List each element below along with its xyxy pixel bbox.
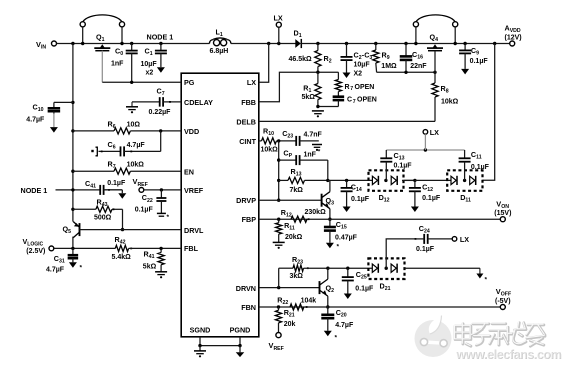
ground below C10 [50, 127, 58, 133]
svg-text:SGND: SGND [190, 326, 211, 335]
wire FBP line to VON [259, 218, 501, 220]
svg-text:6.8µH: 6.8µH [210, 48, 229, 55]
svg-text:10kΩ: 10kΩ [127, 162, 145, 169]
svg-text:FBB: FBB [241, 98, 256, 107]
svg-text:0.1µF: 0.1µF [351, 196, 370, 203]
resistor R13 [279, 179, 288, 181]
svg-text:LX: LX [247, 78, 256, 87]
wire charge pump collector row [328, 179, 373, 181]
svg-text:0.1µF: 0.1µF [416, 246, 435, 253]
capacitor C13 [385, 150, 387, 158]
svg-text:0.22µF: 0.22µF [149, 109, 172, 116]
svg-text:10µF: 10µF [354, 62, 371, 69]
capacitor C14 [346, 180, 348, 188]
wire FBN line to VOFF [259, 306, 501, 308]
svg-text:0.1µF: 0.1µF [471, 164, 490, 171]
wire left column vertical upper [72, 44, 74, 222]
wire FBB riser [259, 72, 339, 102]
terminal LX mid [423, 130, 428, 135]
capacitor C6 [99, 150, 121, 152]
IC U1 outline [181, 73, 259, 337]
wire NODE1 left line [56, 189, 101, 191]
ground PGND [239, 346, 241, 353]
capacitor C7 OPEN [337, 92, 339, 97]
svg-text:0.1µF: 0.1µF [470, 58, 489, 65]
wire R7 to EN pin [130, 170, 181, 172]
capacitor C2-C3 [345, 42, 348, 45]
ground below R11 [273, 241, 285, 243]
capacitor C25 [347, 268, 349, 277]
svg-text:EN: EN [184, 168, 194, 177]
output terminal VON [500, 217, 505, 222]
svg-text:5kΩ: 5kΩ [302, 94, 316, 101]
capacitor C11 [464, 150, 466, 158]
wire C12 to D11 [415, 179, 451, 181]
ground below R41 [155, 271, 167, 273]
resistor R7 OPEN [337, 72, 339, 79]
resistor R22 [290, 304, 304, 310]
terminal LX bottom [452, 237, 457, 242]
svg-text:46.5kΩ: 46.5kΩ [289, 56, 313, 63]
svg-text:VDD: VDD [184, 127, 199, 136]
svg-text:4.7µF: 4.7µF [26, 117, 45, 124]
svg-text:10Ω: 10Ω [127, 121, 141, 128]
svg-text:0.1µF: 0.1µF [135, 207, 154, 214]
resistor R6 [114, 128, 130, 134]
capacitor C41 [99, 185, 101, 195]
wire R9 C16 Q4 bottom row [377, 71, 435, 73]
output terminal VOFF [500, 305, 505, 310]
svg-text:0.47µF: 0.47µF [335, 235, 358, 242]
ground below C14 [343, 207, 351, 213]
resistor R23 [279, 267, 293, 269]
wire DRVP line [259, 199, 322, 201]
wire AVDD vertical to D11 [483, 44, 495, 181]
svg-text:CINT: CINT [239, 137, 256, 146]
svg-text:(15V): (15V) [494, 210, 511, 217]
capacitor C1 [159, 42, 162, 45]
svg-text:0.1µF: 0.1µF [394, 163, 413, 170]
ground SGND [199, 346, 201, 351]
resistor R9 [374, 42, 377, 45]
svg-text:20kΩ: 20kΩ [285, 234, 303, 241]
resistor R21 [278, 307, 280, 310]
ground CDELAY [131, 102, 133, 106]
wire Q4 drain down [434, 51, 436, 73]
svg-text:10kΩ: 10kΩ [441, 99, 459, 106]
diode pair D21 [368, 258, 404, 279]
wire CINT column down to DRVP [278, 141, 280, 200]
ground below C22 [157, 212, 166, 214]
svg-text:FBN: FBN [241, 303, 256, 312]
capacitor C31 [72, 248, 74, 255]
capacitor C23 [295, 136, 297, 146]
capacitor C12 [414, 180, 416, 188]
svg-text:(-5V): (-5V) [495, 298, 511, 305]
ground below C25 [344, 294, 352, 300]
svg-text:DELB: DELB [236, 117, 256, 126]
capacitor C20 [327, 307, 329, 315]
svg-text:x2: x2 [146, 70, 154, 77]
svg-text:4.7µF: 4.7µF [335, 322, 354, 329]
svg-text:1nF: 1nF [304, 152, 317, 159]
resistor R42 [115, 245, 128, 251]
wire R6 to VDD pin [130, 130, 181, 132]
ground below C12 [411, 207, 419, 213]
svg-text:www.elecfans.com: www.elecfans.com [455, 347, 561, 361]
svg-text:FBL: FBL [184, 244, 199, 253]
svg-text:FBP: FBP [242, 215, 257, 224]
svg-text:22nF: 22nF [410, 63, 427, 70]
wire CP R13 right vertical [327, 160, 329, 180]
svg-text:X2: X2 [354, 71, 363, 78]
jumper loop over Q4 [416, 15, 455, 22]
svg-text:VREF: VREF [184, 186, 204, 195]
svg-text:7: 7 [350, 86, 353, 92]
wire Q3 collector [329, 180, 331, 191]
svg-text:PG: PG [184, 78, 195, 87]
wire VIN rail [57, 43, 210, 45]
svg-text:LX: LX [430, 128, 439, 137]
wire R8 to DELB [259, 120, 435, 122]
svg-text:1nF: 1nF [111, 61, 124, 68]
svg-text:LX: LX [460, 235, 469, 244]
ground below C20 [324, 331, 332, 337]
capacitor C0 [130, 42, 133, 45]
svg-text:CDELAY: CDELAY [184, 98, 213, 107]
svg-text:0.1µF: 0.1µF [422, 195, 441, 202]
wire EN line [71, 170, 74, 173]
ground right of C41 [104, 189, 123, 191]
svg-text:10µF: 10µF [141, 61, 158, 68]
wire VREF to pin [144, 189, 181, 191]
wire C6 to VDD line [160, 131, 162, 152]
svg-text:500Ω: 500Ω [94, 215, 112, 222]
wire D21 output with arrow [405, 267, 480, 269]
resistor R7 [114, 168, 130, 174]
wire DRVN line [259, 287, 320, 289]
capacitor C24 row [386, 239, 415, 268]
wire VLOGIC FBL line [54, 247, 116, 249]
pump rail LX row [386, 149, 464, 151]
capacitor C15 [329, 219, 331, 227]
ground below C1 [157, 67, 165, 73]
wire rail L1 to D1 [231, 43, 296, 45]
svg-text:(2.5V): (2.5V) [26, 248, 45, 255]
svg-text:(12V): (12V) [505, 35, 522, 42]
svg-text:0.1µF: 0.1µF [107, 180, 126, 187]
wire rail D1 to AVDD [301, 43, 509, 45]
svg-text:DRVN: DRVN [236, 284, 256, 293]
svg-text:OPEN: OPEN [357, 97, 377, 104]
capacitor C7 [132, 101, 160, 103]
wire CINT line with R10 [262, 138, 277, 144]
wire R23 riser [278, 268, 280, 287]
svg-text:230kΩ: 230kΩ [305, 209, 327, 216]
diode pair D11 [447, 170, 482, 191]
wire Q3 emitter to FBP line [329, 209, 331, 220]
resistor R41 [160, 248, 162, 252]
svg-text:20k: 20k [284, 321, 296, 328]
watermark logo disc [415, 316, 452, 358]
svg-text:7: 7 [353, 99, 356, 105]
wire R42 to FBL pin [129, 247, 182, 249]
resistor R43 [71, 208, 74, 211]
svg-text:PGND: PGND [230, 326, 251, 335]
capacitor C9 [463, 42, 466, 45]
ground below C9 [461, 69, 469, 75]
svg-text:4.7µF: 4.7µF [127, 142, 146, 149]
svg-text:4.7µF: 4.7µF [46, 267, 65, 274]
svg-text:LX: LX [274, 14, 283, 23]
svg-text:1MΩ: 1MΩ [381, 63, 397, 70]
wire R43 down to DRVL line [122, 209, 124, 229]
resistor R1 [316, 71, 319, 74]
svg-text:DRVL: DRVL [184, 226, 204, 235]
resistor R2 [316, 42, 319, 45]
capacitor C22 [160, 190, 162, 198]
svg-text:0.1µF: 0.1µF [355, 286, 374, 293]
capacitor C6 polarity mark [91, 150, 93, 152]
wire left column vertical lower [72, 237, 74, 249]
resistor R12 [291, 216, 307, 222]
svg-text:DRVP: DRVP [236, 196, 256, 205]
wire SGND PGND stubs [199, 337, 201, 346]
wire LX down to IC pin [259, 44, 269, 83]
jumper loop over Q1 [83, 15, 122, 22]
wire Q5 base DRVL line [80, 229, 182, 231]
ground below C31 [69, 262, 77, 268]
svg-text:7kΩ: 7kΩ [290, 187, 304, 194]
svg-text:NODE 1: NODE 1 [21, 186, 48, 195]
watermark brand characters [455, 323, 545, 346]
resistor R8 [434, 72, 436, 83]
capacitor CP [279, 159, 297, 161]
svg-text:C: C [347, 97, 352, 104]
ground below C15 [326, 243, 334, 249]
svg-text:3kΩ: 3kΩ [290, 273, 304, 280]
svg-text:NODE 1: NODE 1 [147, 33, 174, 42]
ground below R1 [312, 110, 324, 112]
svg-text:4.7nF: 4.7nF [304, 132, 323, 139]
output terminal AVDD [493, 42, 496, 45]
diode pair D12 [369, 170, 404, 191]
resistor R11 [278, 219, 280, 223]
wire C7open to R1 bottom [318, 106, 339, 108]
wire Q2 emitter [327, 296, 329, 307]
svg-text:OPEN: OPEN [355, 84, 375, 91]
capacitor C10 [71, 101, 74, 104]
wire Q1 drain to PG line [101, 51, 103, 83]
svg-text:10kΩ: 10kΩ [261, 147, 279, 154]
svg-text:5.4kΩ: 5.4kΩ [112, 254, 132, 261]
terminal VREF bottom [276, 333, 281, 338]
ground below C2-C3 [343, 73, 351, 79]
svg-text:5kΩ: 5kΩ [143, 264, 157, 271]
svg-text:R: R [345, 84, 350, 91]
ground right of C23 [312, 144, 322, 146]
wire Q2 collector [327, 268, 329, 279]
wire VDD line [71, 129, 74, 132]
svg-text:104k: 104k [301, 298, 317, 305]
wire R23 row to D21 [328, 267, 372, 269]
wire D12 to C12 [402, 179, 415, 181]
capacitor C16 [404, 42, 407, 45]
